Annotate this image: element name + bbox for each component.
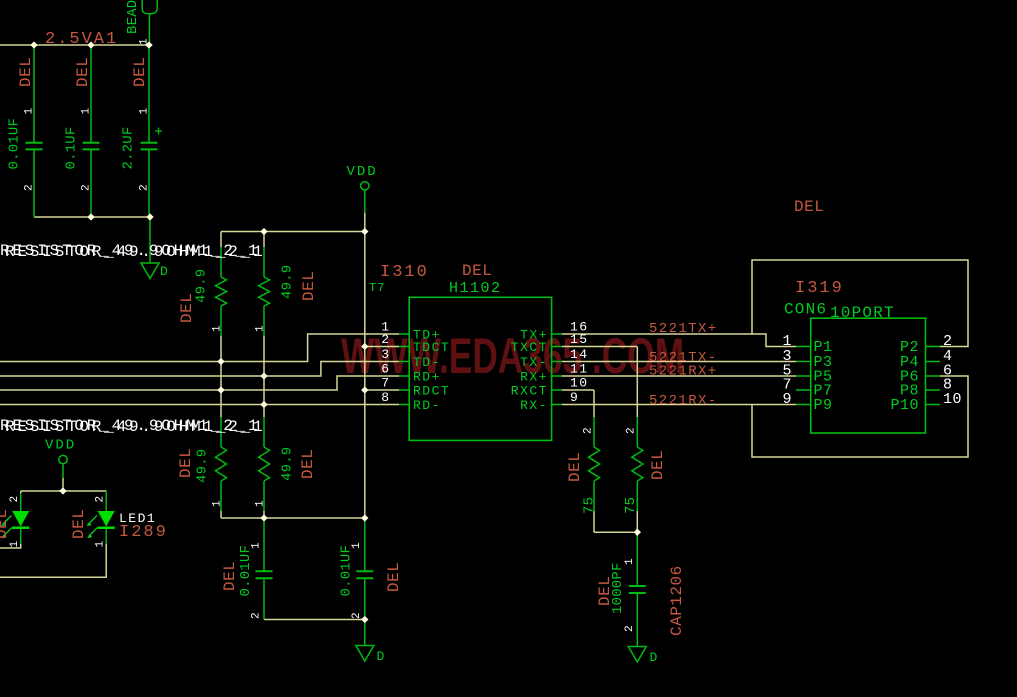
wire LED1 cathode exit [0, 544, 21, 548]
svg-text:1: 1 [139, 38, 151, 45]
capacitor C 2.2UF leads [148, 45, 150, 217]
svg-text:1: 1 [139, 108, 151, 115]
svg-text:RD+: RD+ [413, 370, 441, 385]
wire RX+ to P5 [562, 375, 796, 377]
capacitor C 0.01UF leads (top block) [21, 14, 638, 646]
svg-text:5221RX+: 5221RX+ [649, 364, 718, 380]
svg-text:TD-: TD- [413, 355, 441, 370]
resistor R 49.9 pin stubs col2 [263, 247, 265, 511]
ground symbol bottom-center [356, 646, 374, 662]
capacitor plates 0.01UF bottom [256, 571, 273, 578]
polarized cap plus sign [155, 128, 162, 135]
bead lead [148, 14, 150, 45]
svg-text:DEL: DEL [649, 450, 667, 480]
wire RX- to P9 [562, 404, 796, 406]
svg-text:D: D [377, 649, 385, 664]
svg-text:2.5VA1: 2.5VA1 [45, 30, 118, 49]
CON pin stubs [796, 347, 811, 405]
svg-text:14: 14 [570, 347, 589, 362]
capacitor C 0.1UF leads [90, 45, 92, 217]
wire R column2 segments [263, 232, 265, 519]
svg-text:P10: P10 [890, 397, 919, 414]
svg-text:1: 1 [255, 500, 267, 507]
H1102 box U I310 [409, 297, 551, 440]
svg-text:1: 1 [81, 108, 93, 115]
svg-text:RX+: RX+ [520, 370, 548, 385]
svg-text:1: 1 [212, 325, 224, 332]
H1102 pin stubs [399, 334, 940, 405]
svg-text:49.9: 49.9 [195, 449, 211, 483]
wire cap ground rail [264, 619, 365, 621]
resistor R 49.9 zigzag top-right [259, 277, 270, 306]
svg-text:9: 9 [570, 390, 579, 405]
svg-text:RDCT: RDCT [413, 384, 450, 399]
svg-text:T7: T7 [369, 281, 385, 295]
svg-text:TDCT: TDCT [413, 340, 450, 355]
ground lead bottom center [364, 620, 366, 646]
svg-text:2: 2 [351, 612, 363, 619]
wire loop TX+ top to P2 [752, 260, 968, 347]
svg-text:BEAD: BEAD [125, 0, 141, 34]
svg-text:9: 9 [782, 391, 792, 408]
wire VDD row to resistor tops [221, 231, 364, 233]
ground symbol top-left [141, 263, 159, 279]
svg-text:DEL: DEL [385, 562, 403, 592]
capacitor plates top block [26, 143, 646, 593]
wire bus RD+ [0, 376, 399, 390]
wire bottom cap rail [34, 216, 150, 218]
wire 75 column segments [594, 347, 637, 533]
svg-text:2: 2 [624, 625, 636, 632]
svg-text:DEL: DEL [70, 509, 88, 539]
wire 75ohm common row [594, 531, 637, 533]
svg-text:DEL: DEL [17, 57, 35, 87]
svg-text:1: 1 [351, 542, 363, 549]
resistor R 49.9 zigzag bottom-left [216, 447, 227, 481]
resistor R 49.9 pin stubs col1 [220, 247, 222, 511]
wire TXCT down [562, 346, 637, 348]
svg-text:VDD: VDD [347, 164, 378, 180]
bead L1 [142, 0, 157, 14]
svg-text:2: 2 [9, 496, 21, 503]
svg-text:DEL: DEL [794, 198, 824, 216]
svg-text:1: 1 [95, 541, 107, 548]
svg-text:1: 1 [24, 108, 36, 115]
svg-text:DEL: DEL [0, 509, 11, 539]
wire TX+ to P1 [562, 334, 796, 347]
svg-text:3: 3 [381, 347, 390, 362]
svg-text:P9: P9 [814, 397, 833, 414]
capacitor 0.01UF bottom leads [264, 518, 365, 620]
wire TDCT [365, 346, 399, 348]
svg-text:10: 10 [570, 376, 589, 391]
ground symbol bottom-right [628, 647, 646, 663]
svg-text:I289: I289 [119, 523, 168, 542]
svg-text:RD-: RD- [413, 398, 441, 413]
svg-text:2: 2 [381, 332, 390, 347]
svg-text:DEL: DEL [74, 57, 92, 87]
VDD circle top [361, 182, 369, 190]
svg-text:DEL: DEL [300, 271, 318, 301]
svg-text:75: 75 [623, 497, 639, 514]
svg-text:5221RX-: 5221RX- [649, 393, 718, 409]
svg-text:10PORT: 10PORT [830, 304, 895, 322]
wire loop RX- bottom to P6 [752, 376, 968, 457]
svg-text:DEL: DEL [221, 561, 239, 591]
svg-text:CAP1206: CAP1206 [668, 565, 686, 636]
svg-text:RESISTOR_49.9OHM1_2_1: RESISTOR_49.9OHM1_2_1 [5, 418, 265, 436]
LED1 diode B [87, 511, 115, 538]
svg-text:0.01UF: 0.01UF [339, 545, 355, 597]
svg-text:D: D [650, 650, 658, 665]
75 ohm resistor pin stubs [594, 417, 637, 511]
VDD circle LED [59, 455, 67, 463]
svg-text:I310: I310 [380, 263, 429, 282]
svg-text:49.9: 49.9 [280, 447, 296, 481]
CON10PORT box I319 [811, 318, 926, 433]
resistor R 75 zigzag right [632, 447, 643, 481]
svg-text:2: 2 [139, 184, 151, 191]
wire RXCT down [562, 389, 594, 391]
svg-text:D: D [160, 264, 168, 279]
wire resistor common row [221, 517, 365, 519]
resistor R 49.9 zigzag top-left [216, 277, 227, 306]
svg-text:1: 1 [255, 325, 267, 332]
svg-text:TX-: TX- [520, 355, 548, 370]
svg-text:1: 1 [9, 541, 21, 548]
svg-text:1000PF: 1000PF [610, 562, 626, 614]
svg-text:2: 2 [251, 612, 263, 619]
wire bus TD- [0, 362, 399, 377]
svg-text:15: 15 [570, 332, 589, 347]
svg-text:49.9: 49.9 [280, 265, 296, 299]
svg-text:8: 8 [381, 390, 390, 405]
wire R column1 segments [220, 232, 222, 519]
svg-text:2: 2 [95, 496, 107, 503]
svg-text:RX-: RX- [520, 398, 548, 413]
svg-text:0.01UF: 0.01UF [7, 118, 23, 170]
svg-text:0.01UF: 0.01UF [238, 545, 254, 597]
svg-text:DEL: DEL [462, 262, 492, 280]
wire LED2 cathode exit [0, 544, 106, 577]
wire bus RD- [0, 404, 399, 406]
wire bus TD+ [0, 334, 399, 362]
svg-text:2: 2 [24, 184, 36, 191]
svg-text:RESISTOR_49.9OHM1_2_1: RESISTOR_49.9OHM1_2_1 [5, 243, 265, 261]
capacitor plates 1000PF [629, 586, 646, 593]
svg-text:7: 7 [381, 376, 390, 391]
svg-text:2: 2 [81, 184, 93, 191]
svg-text:75: 75 [582, 497, 598, 514]
svg-text:CON6: CON6 [784, 301, 827, 319]
VDD leads [63, 190, 365, 478]
wire LED VDD rail [21, 478, 107, 493]
svg-text:H1102: H1102 [449, 280, 502, 297]
svg-text:0.1UF: 0.1UF [64, 126, 80, 169]
svg-text:RXCT: RXCT [511, 384, 548, 399]
svg-text:TXCT: TXCT [511, 340, 548, 355]
svg-text:DEL: DEL [177, 448, 195, 478]
svg-text:DEL: DEL [131, 57, 149, 87]
svg-text:VDD: VDD [45, 438, 76, 454]
svg-text:10: 10 [943, 391, 962, 408]
wire top cap rail [0, 45, 968, 620]
svg-text:DEL: DEL [299, 449, 317, 479]
svg-text:1: 1 [251, 542, 263, 549]
resistor R 49.9 zigzag bottom-right [259, 447, 270, 481]
svg-text:2: 2 [583, 427, 595, 434]
svg-text:49.9: 49.9 [194, 269, 210, 303]
resistor R 75 zigzag left [589, 447, 600, 481]
svg-text:2.2UF: 2.2UF [121, 126, 137, 169]
svg-text:DEL: DEL [566, 452, 584, 482]
wire TX- to P3 [562, 361, 796, 363]
svg-text:I319: I319 [795, 279, 844, 298]
LED leads [21, 491, 107, 544]
svg-text:1: 1 [624, 558, 636, 565]
svg-text:6: 6 [381, 362, 390, 377]
wire VDD vertical rail [364, 213, 366, 518]
svg-text:5221TX+: 5221TX+ [649, 321, 718, 337]
cap 1000PF leads [636, 532, 638, 646]
ground lead top [149, 217, 151, 263]
svg-text:2: 2 [626, 427, 638, 434]
LED1 diode A [1, 511, 29, 538]
svg-text:1: 1 [212, 500, 224, 507]
svg-text:11: 11 [570, 362, 589, 377]
wire RDCT [365, 389, 399, 391]
